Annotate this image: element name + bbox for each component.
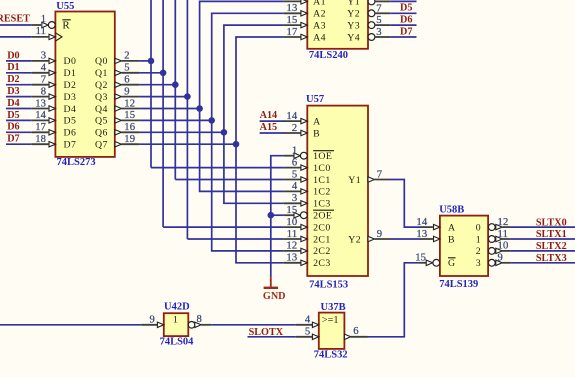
wire net Q4: U55.Q4 to 74LS240.A1 and 74LS153 input [139, 1, 284, 191]
net label A15 + stub wire [260, 122, 285, 133]
svg-text:U37B: U37B [321, 302, 346, 313]
svg-text:U42D: U42D [164, 301, 190, 312]
junction Q4 [196, 105, 203, 112]
svg-text:D5: D5 [7, 110, 19, 121]
wire into U42D from left edge [0, 324, 141, 326]
wire + net label SLTX0 [511, 217, 575, 228]
U55 input pin 14 (D5) [32, 110, 56, 123]
wire U42D output to U37B pin 4 [211, 324, 296, 326]
svg-text:SLTX0: SLTX0 [536, 217, 567, 228]
svg-text:4: 4 [305, 315, 311, 326]
U55 pin 1 (R) with bubble [31, 14, 55, 28]
U55 input pin 18 (D7) [32, 134, 56, 147]
U57 pin 1 [284, 146, 307, 160]
U58B pin 13 (B) [416, 229, 440, 242]
U55 pin names D0-D7 / Q0-Q7 [64, 56, 108, 150]
wire + net label D6 [390, 15, 416, 26]
svg-text:1OE: 1OE [313, 151, 332, 162]
U57 pin 11 [284, 229, 307, 242]
wire net OE: 1OE/2OE tied to ground [271, 156, 284, 278]
svg-text:14: 14 [35, 110, 46, 121]
svg-text:3: 3 [292, 193, 298, 204]
U55 output pin 15 (Q5) [115, 110, 139, 123]
svg-text:Y1: Y1 [348, 175, 361, 186]
net label A14 + stub wire [260, 110, 285, 121]
label 74LS153 [309, 279, 348, 290]
net label D2 + stub wire [6, 74, 32, 85]
74LS240 input pin 11 (A1) [284, 0, 307, 4]
svg-text:D3: D3 [64, 92, 77, 103]
U55 input pin 3 (D0) [32, 51, 56, 64]
svg-text:13: 13 [286, 253, 297, 264]
svg-text:12: 12 [498, 217, 509, 228]
svg-text:13: 13 [35, 98, 46, 109]
svg-text:D6: D6 [64, 128, 77, 139]
U58B output pin 9 (O3) with bubble [488, 253, 510, 267]
svg-text:2C1: 2C1 [313, 234, 331, 245]
74LS240 input pin 17 (A4) [284, 27, 307, 40]
svg-text:11: 11 [287, 229, 298, 240]
svg-text:1: 1 [476, 234, 481, 245]
designator U57 [306, 94, 324, 105]
U55 clock pin triangle [55, 33, 62, 41]
wire net from U37B.6 up to U58B.G [368, 263, 420, 337]
svg-text:7: 7 [376, 3, 382, 14]
label 74LS04 [160, 337, 195, 348]
U57 A15 pin wire [283, 132, 285, 134]
IC U57 74LS153 body [307, 106, 368, 276]
svg-text:14: 14 [416, 217, 427, 228]
svg-text:U55: U55 [56, 1, 74, 12]
svg-text:17: 17 [287, 27, 298, 38]
svg-text:D1: D1 [7, 62, 19, 73]
junction Q7 [233, 141, 240, 148]
svg-text:2OE: 2OE [313, 211, 332, 222]
wire net Y2: U57.Y2 to U58B.B [391, 238, 420, 240]
wire net Q0: U55.Q0 to 74LS153 input, vertical column from top edge [139, 0, 284, 168]
U55 input pin 8 (D3) [32, 86, 56, 99]
svg-text:G: G [448, 258, 455, 269]
svg-text:13: 13 [416, 229, 427, 240]
svg-text:5: 5 [376, 15, 382, 26]
svg-text:3: 3 [376, 27, 382, 38]
net label D1 + stub wire [6, 62, 32, 73]
svg-text:74LS04: 74LS04 [160, 337, 195, 348]
label 74LS240 [309, 50, 348, 61]
label 74LS273 [57, 157, 96, 168]
svg-text:5: 5 [305, 327, 311, 338]
junction Q5 [208, 117, 215, 124]
svg-text:U58B: U58B [439, 205, 464, 216]
svg-text:12: 12 [124, 98, 135, 109]
junction Q6 [221, 129, 228, 136]
svg-text:Q4: Q4 [95, 104, 108, 115]
svg-text:6: 6 [292, 157, 298, 168]
svg-text:13: 13 [287, 3, 298, 14]
IC U37B 74LS32 OR-gate body [319, 313, 345, 349]
svg-text:A: A [313, 116, 320, 127]
svg-text:A15: A15 [260, 122, 278, 133]
U57 pin 13 [284, 253, 307, 266]
U58B output pin 11 (O1) with bubble [488, 229, 510, 243]
svg-text:SLTX3: SLTX3 [536, 253, 567, 264]
svg-text:GND: GND [263, 291, 286, 302]
svg-text:6: 6 [353, 326, 359, 337]
svg-text:0: 0 [476, 222, 481, 233]
svg-text:D1: D1 [64, 68, 77, 79]
svg-text:B: B [313, 128, 320, 139]
74LS240 pin names A1-A4, Y1-Y4 [313, 0, 360, 43]
svg-text:R: R [62, 20, 70, 32]
74LS240 input pin 15 (A3) [284, 15, 307, 28]
svg-text:D6: D6 [400, 15, 412, 26]
U55 output pin 5 (Q1) [115, 63, 139, 76]
svg-text:D6: D6 [7, 122, 19, 133]
svg-text:Y3: Y3 [347, 20, 360, 31]
net label D6 + stub wire [6, 122, 32, 133]
wire net Q6: U55.Q6 to 74LS240.A3 and 74LS153 input [139, 25, 284, 203]
svg-text:74LS153: 74LS153 [309, 279, 348, 290]
svg-text:U57: U57 [306, 94, 324, 105]
svg-text:D3: D3 [7, 86, 19, 97]
svg-text:1: 1 [173, 315, 178, 326]
wire + net label SLTX2 [511, 241, 575, 252]
designator U42D [164, 301, 190, 312]
svg-text:SLTX1: SLTX1 [536, 229, 567, 240]
svg-text:4: 4 [41, 63, 47, 74]
svg-text:1C3: 1C3 [313, 199, 331, 210]
svg-text:A14: A14 [260, 110, 278, 121]
svg-text:1: 1 [292, 146, 298, 157]
U57 pin 15 [284, 205, 307, 219]
svg-text:D5: D5 [400, 3, 412, 14]
label 74LS139 [439, 279, 478, 290]
U57 pin 2 [284, 123, 307, 136]
svg-text:>=1: >=1 [322, 315, 339, 326]
net label D7 + stub wire [6, 134, 32, 145]
U58B output pin 10 (O2) with bubble [488, 241, 510, 255]
wire + net label D5 [390, 3, 416, 14]
svg-text:1C2: 1C2 [313, 187, 331, 198]
svg-text:7: 7 [41, 75, 47, 86]
svg-text:1C0: 1C0 [313, 163, 331, 174]
svg-text:Y2: Y2 [347, 9, 360, 20]
U58B pin names A,B,G,0-3 [448, 222, 481, 269]
wire net Y1: U57.Y1 to U58B.A [391, 180, 420, 228]
svg-text:SLOTX: SLOTX [249, 327, 284, 338]
74LS240 output pin 5 (Y3) with bubble [368, 15, 390, 28]
U55 output pin 6 (Q2) [115, 75, 139, 88]
U55 input pin 17 (D6) [32, 122, 56, 135]
U58B output pin 12 (O0) with bubble [488, 217, 510, 231]
svg-text:12: 12 [286, 241, 297, 252]
svg-text:19: 19 [124, 134, 135, 145]
svg-text:2C2: 2C2 [313, 246, 331, 257]
net label D5 + stub wire [6, 110, 32, 121]
U57 A14 pin wire [283, 120, 285, 122]
U55 pin name R (reset, active low) [62, 20, 70, 32]
svg-text:Y1: Y1 [347, 0, 360, 8]
svg-text:6: 6 [124, 75, 130, 86]
wire + net label SLTX3 [511, 253, 575, 264]
label 74LS32 [314, 350, 348, 361]
net label D4 + stub wire [6, 98, 32, 109]
svg-text:D4: D4 [7, 98, 19, 109]
74LS240 output pin 3 (Y4) with bubble [368, 27, 390, 40]
svg-text:7: 7 [377, 169, 383, 180]
svg-text:D7: D7 [7, 134, 19, 145]
wire net Q7: U55.Q7 to 74LS240.A4 and 74LS153 input [139, 37, 284, 263]
wire + net label D4 [390, 0, 416, 2]
svg-text:Q1: Q1 [95, 68, 108, 79]
U55 output pin 9 (Q3) [115, 86, 139, 99]
74LS240 input pin 13 (A2) [284, 3, 307, 16]
svg-text:74LS273: 74LS273 [57, 157, 96, 168]
U57 pin 6 [284, 157, 307, 170]
designator U55 [56, 1, 74, 12]
U55 input pin 13 (D4) [32, 98, 56, 111]
junction Q0 [148, 58, 155, 65]
svg-text:9: 9 [498, 253, 504, 264]
svg-text:74LS139: 74LS139 [439, 279, 478, 290]
U55 input pin 7 (D2) [32, 75, 56, 88]
U57 pin 3 [284, 193, 307, 206]
svg-text:15: 15 [286, 205, 297, 216]
svg-text:14: 14 [286, 111, 297, 122]
junction Q2 [172, 81, 179, 88]
svg-text:15: 15 [287, 15, 298, 26]
U57 pin 14 [284, 111, 307, 124]
U57 output pin 7 (Y1) [368, 169, 391, 182]
svg-text:B: B [448, 234, 455, 245]
svg-text:A2: A2 [313, 9, 326, 20]
U42D input pin 9 [141, 315, 164, 328]
svg-text:D5: D5 [64, 116, 77, 127]
svg-text:9: 9 [377, 229, 383, 240]
svg-text:9: 9 [150, 315, 156, 326]
svg-text:D0: D0 [7, 50, 19, 61]
svg-text:4: 4 [292, 181, 298, 192]
svg-text:A1: A1 [313, 0, 326, 8]
svg-text:18: 18 [35, 134, 46, 145]
svg-text:Q6: Q6 [95, 128, 108, 139]
net label RESET + wire [0, 13, 31, 25]
U55 output pin 2 (Q0) [115, 51, 139, 64]
IC U42D 74LS04 inverter body [164, 313, 189, 336]
svg-text:Q7: Q7 [95, 140, 108, 151]
svg-text:A: A [448, 222, 455, 233]
svg-text:2: 2 [476, 246, 481, 257]
svg-text:D7: D7 [64, 140, 77, 151]
U55 output pin 12 (Q4) [115, 98, 139, 111]
svg-text:15: 15 [124, 110, 135, 121]
svg-text:2: 2 [292, 123, 298, 134]
wire net Q2: U55.Q2 to 74LS153 input, vertical column from top edge [139, 0, 284, 180]
ground GND symbol [263, 277, 286, 302]
svg-text:3: 3 [41, 51, 47, 62]
IC octal buffer 74LS240 body (top, partially cut) [307, 0, 368, 49]
svg-text:10: 10 [498, 241, 509, 252]
svg-text:9: 9 [124, 86, 130, 97]
U57 pin 5 [284, 169, 307, 182]
svg-text:74LS32: 74LS32 [314, 350, 348, 361]
U57 pin 10 [284, 217, 307, 230]
svg-text:D2: D2 [64, 80, 77, 91]
U37B input pin 4 [296, 315, 319, 328]
svg-text:D2: D2 [7, 74, 19, 85]
net label D3 + stub wire [6, 86, 32, 97]
IC U58B 74LS139 body [440, 216, 488, 276]
wire + net label D7 [390, 26, 416, 37]
net label D0 + stub wire [6, 50, 32, 61]
svg-text:1: 1 [41, 14, 47, 25]
wire net Q5: U55.Q5 to 74LS240.A2 and 74LS153 input [139, 13, 284, 251]
junction Q3 [184, 93, 191, 100]
svg-text:16: 16 [124, 122, 135, 133]
svg-text:Q5: Q5 [95, 116, 108, 127]
U42D output pin 8 with bubble [188, 314, 211, 328]
svg-text:5: 5 [124, 63, 130, 74]
svg-text:D4: D4 [64, 104, 77, 115]
U57 pin 4 [284, 181, 307, 194]
designator U37B [321, 302, 346, 313]
clock wire from left edge [0, 36, 32, 38]
svg-text:D0: D0 [64, 56, 77, 67]
designator U58B [439, 205, 464, 216]
U57 pin names [313, 116, 361, 269]
svg-text:11: 11 [36, 26, 47, 37]
svg-text:SLTX2: SLTX2 [536, 241, 567, 252]
U37B output pin 6 [344, 326, 367, 340]
svg-text:17: 17 [35, 122, 46, 133]
svg-text:Y4: Y4 [347, 32, 360, 43]
svg-text:RESET: RESET [0, 13, 30, 24]
svg-text:5: 5 [292, 169, 298, 180]
IC U55 74LS273 body [55, 12, 114, 157]
74LS240 output pin 9 (Y1) with bubble [368, 0, 390, 5]
74LS240 output pin 7 (Y2) with bubble [368, 3, 390, 16]
svg-text:D7: D7 [400, 26, 412, 37]
U55 pin 11 (clock) [32, 26, 56, 40]
U55 output pin 19 (Q7) [115, 134, 139, 147]
svg-text:Q0: Q0 [95, 56, 108, 67]
svg-text:10: 10 [286, 217, 297, 228]
svg-text:A3: A3 [313, 20, 326, 31]
U55 output pin 16 (Q6) [115, 122, 139, 135]
svg-text:2: 2 [124, 51, 130, 62]
svg-text:8: 8 [41, 86, 47, 97]
svg-text:74LS240: 74LS240 [309, 50, 348, 61]
svg-text:8: 8 [197, 314, 203, 325]
svg-text:2C3: 2C3 [313, 258, 331, 269]
junction OE at 2OE row [268, 212, 275, 219]
U57 pin 12 [284, 241, 307, 254]
svg-text:Y2: Y2 [348, 234, 361, 245]
svg-text:Q3: Q3 [95, 92, 108, 103]
U58B pin 14 (A) [416, 217, 440, 230]
wire net Q1: U55.Q1 to 74LS153 input, vertical column from top edge [139, 0, 284, 227]
svg-text:2C0: 2C0 [313, 222, 331, 233]
U55 input pin 4 (D1) [32, 63, 56, 76]
U37B input pin 5 [296, 327, 319, 340]
svg-text:Q2: Q2 [95, 80, 108, 91]
U57 output pin 9 (Y2) [368, 229, 391, 242]
U58B pin 15 (G enable, bubble) [415, 253, 439, 267]
wire net Q3: U55.Q3 to 74LS153 input, vertical column from top edge [139, 0, 284, 239]
svg-text:A4: A4 [313, 32, 326, 43]
junction Q1 [160, 70, 167, 77]
svg-text:11: 11 [498, 229, 509, 240]
svg-text:1C1: 1C1 [313, 175, 331, 186]
svg-text:3: 3 [476, 258, 481, 269]
wire + net label SLTX1 [511, 229, 575, 240]
net label SLOTX + stub wire [248, 327, 296, 338]
